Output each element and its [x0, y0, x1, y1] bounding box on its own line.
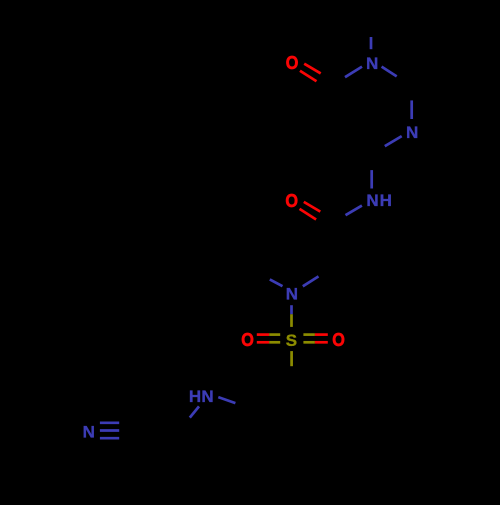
S=O left double bond	[257, 333, 269, 336]
S=O right double bond	[303, 333, 315, 336]
wire C2-N3 stub	[410, 100, 413, 119]
wire S-C(aryl) stub	[290, 351, 293, 366]
svg-text:S: S	[286, 331, 297, 350]
svg-text:N: N	[406, 123, 418, 142]
svg-text:N: N	[366, 191, 378, 210]
svg-text:N: N	[201, 387, 213, 406]
nitrile C#N triple bond blue halves	[100, 421, 119, 424]
wire N1-CH3 methyl stub	[370, 37, 373, 49]
wire N3-C4 stub	[385, 136, 402, 146]
wire N1-C6 stub	[345, 67, 362, 78]
svg-text:H: H	[380, 191, 392, 210]
svg-text:O: O	[286, 53, 299, 74]
svg-text:O: O	[332, 330, 345, 351]
svg-text:O: O	[241, 330, 254, 351]
wire N-S bond sulfur half	[290, 314, 293, 327]
wire HN-C7a stub	[218, 397, 235, 403]
wire N(sulfonamide)-CH2 stub	[303, 276, 319, 286]
ketone C6=O double bond red halves	[304, 64, 321, 74]
wire NH-C(amide) stub	[346, 206, 362, 216]
svg-text:H: H	[189, 387, 201, 406]
svg-text:O: O	[285, 191, 298, 212]
wire N-S bond blue half	[290, 305, 293, 314]
wire N(sulfonamide)-CH3 stub	[270, 279, 283, 286]
svg-text:N: N	[286, 284, 298, 303]
svg-text:N: N	[83, 422, 95, 441]
wire HN-C2' stub	[190, 406, 199, 417]
wire N1-C2 stub	[382, 67, 397, 77]
amide C=O double bond red halves	[304, 202, 321, 212]
svg-text:N: N	[366, 54, 378, 73]
wire C4-NH stub	[370, 170, 373, 188]
